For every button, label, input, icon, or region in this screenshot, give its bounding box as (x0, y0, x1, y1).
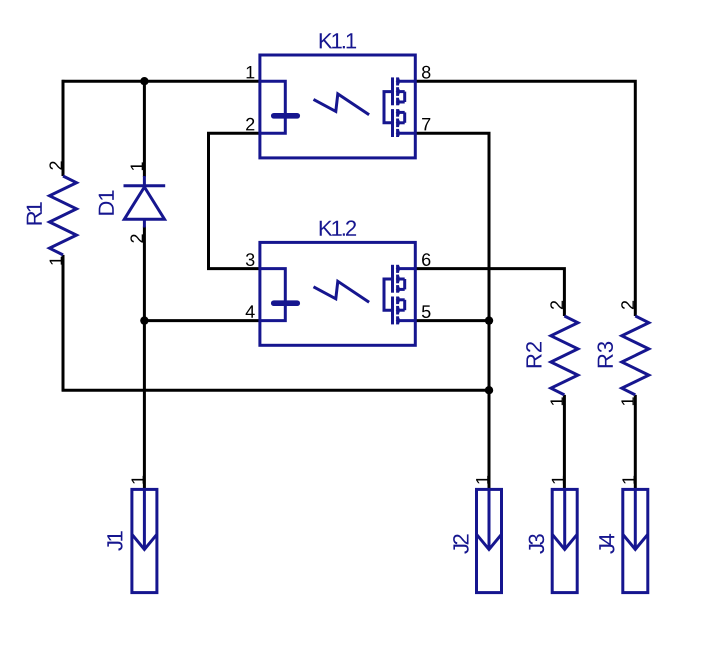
K1.1 MOSFET gate lines (391, 77, 394, 105)
K1.2 box outline (260, 242, 415, 345)
K1.1 pin 2 number (246, 118, 254, 131)
label J4 (599, 534, 614, 554)
junction bottom bus / J2 (485, 386, 493, 394)
J4 pin 1 label (622, 476, 634, 484)
K1.2 MOSFET gate lines (391, 265, 394, 293)
K1.2 pin 5 number (422, 305, 431, 318)
K1.1 coil input bracket (260, 81, 285, 133)
R1 pin 1 label (50, 257, 62, 265)
wire K1.1 pin 8 to R3 top (415, 81, 635, 316)
R3 pin 2 label (621, 301, 634, 309)
connector J1 (132, 489, 157, 592)
resistor R3 (622, 316, 649, 395)
wire R3 bottom to J4 (634, 395, 637, 490)
wire top net: R1 top to K1.1 pin 1 (62, 80, 260, 83)
K1.2 pin 4 number (246, 305, 255, 317)
K1.1 pin 7 number (422, 118, 430, 130)
J1 pin 1 label (132, 476, 144, 484)
label R1 (27, 202, 42, 224)
wire D1 bottom vertical to J1 (143, 227, 146, 490)
D1 pin 2 label (130, 234, 143, 242)
connector J3 (552, 489, 577, 592)
diode D1 (143, 176, 146, 186)
wire R1 bottom vertical to bottom bus (62, 255, 65, 392)
D1 pin 1 label (131, 162, 143, 170)
junction pin5 net (485, 316, 493, 324)
K1.2 coil input bracket (260, 269, 285, 321)
label J1 (107, 531, 122, 550)
K1.1 MOSFET channel segments (396, 77, 399, 85)
wire K1.2 pin 6 to R2 top (415, 269, 564, 316)
J3 pin 1 label (552, 476, 564, 484)
label R2 (526, 342, 541, 367)
wire D1 top vertical from top net (143, 81, 146, 177)
R2 pin 1 label (551, 397, 563, 405)
K1.1 box outline (260, 55, 415, 158)
K1.1 drain/source contacts (398, 80, 416, 83)
wire K1.1 pin 2 to K1.2 pin 3 loop (209, 133, 260, 268)
wire K1.1 pin 7 down to J2 (415, 133, 489, 489)
K1.1 gate return bracket (384, 92, 393, 123)
K1.2 gate return bracket (384, 279, 393, 310)
label J2 (453, 534, 469, 553)
resistor R2 (551, 316, 578, 395)
R2 pin 2 label (550, 301, 563, 309)
wire K1.2 pin 5 to junction (415, 319, 489, 322)
label D1 (99, 191, 114, 215)
wire K1.2 pin 4 horizontal (144, 319, 260, 322)
wire R2 bottom to J3 (563, 395, 566, 490)
connector J2 (477, 489, 502, 592)
K1.2 pin 3 number (246, 253, 255, 266)
K1.2 MOSFET channel segments (396, 265, 399, 273)
wire R1 top vertical (62, 80, 65, 176)
K1.2 source link brackets (403, 279, 406, 289)
K1.1 coil bar (274, 113, 297, 119)
label K1.1 (320, 33, 356, 48)
K1.1 pin 1 number (247, 66, 255, 78)
wire bottom bus horizontal to junction (62, 389, 489, 392)
K1.1 pin 8 number (422, 66, 430, 79)
K1.2 drain/source contacts (398, 267, 416, 270)
junction top net / D1 (140, 77, 148, 85)
K1.1 source link brackets (403, 92, 406, 102)
K1.2 coil bar (274, 300, 297, 306)
label R3 (597, 342, 613, 367)
junction pin4 net / D1-J1 (140, 316, 148, 324)
label J3 (529, 534, 545, 554)
J2 pin 1 label (476, 476, 488, 484)
label K1.2 (320, 220, 356, 235)
K1.1 opto arrow (314, 94, 370, 115)
R3 pin 1 label (621, 397, 633, 405)
resistor R1 (50, 176, 77, 255)
K1.2 opto arrow (314, 281, 370, 302)
R1 pin 2 label (49, 161, 62, 169)
K1.1 body arrows (396, 78, 400, 84)
K1.2 body arrows (396, 266, 400, 272)
connector J4 (623, 489, 648, 592)
K1.2 pin 6 number (422, 253, 430, 266)
